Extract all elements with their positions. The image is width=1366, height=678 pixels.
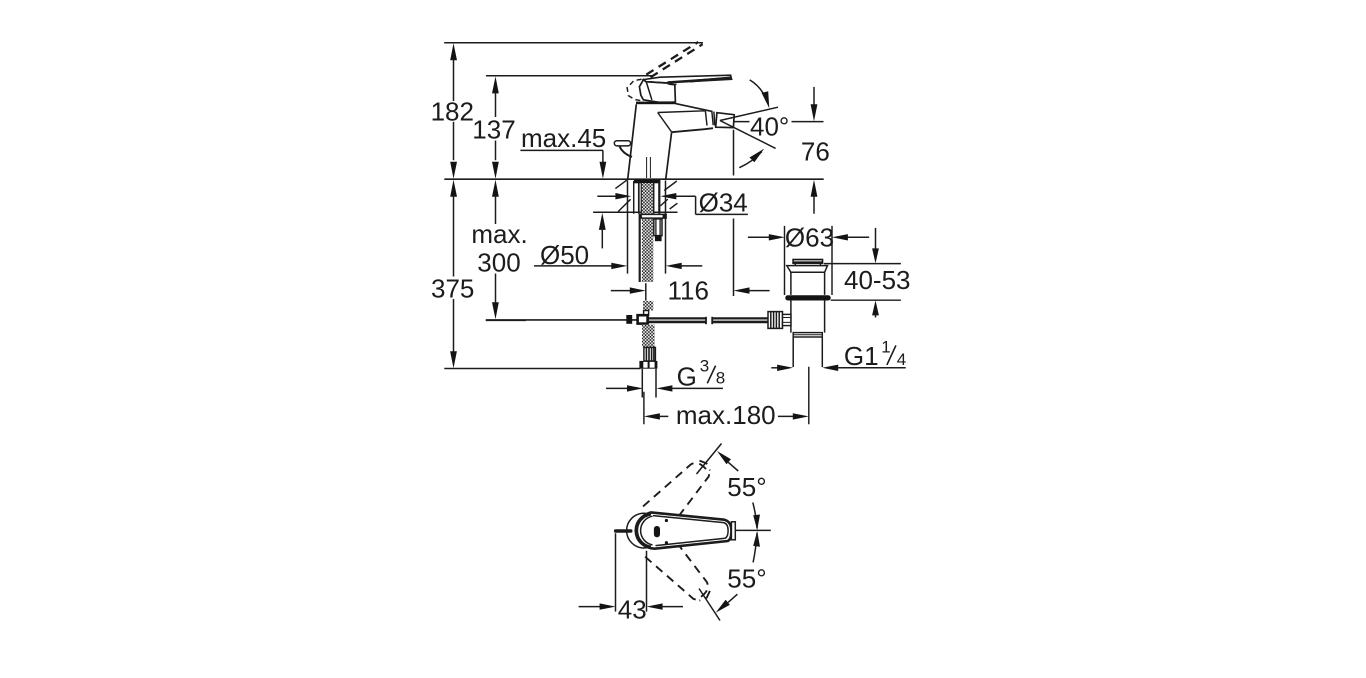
- 55 degree lower ray: [699, 589, 720, 621]
- dimension Ø63: [748, 222, 869, 295]
- hose resume braid: [643, 301, 653, 311]
- hose nut G3/8: [639, 361, 657, 369]
- spout facet lines: [658, 111, 707, 132]
- dimension 40-53: [824, 228, 911, 318]
- counter bottom line: [593, 211, 677, 213]
- svg-text:4: 4: [897, 350, 906, 369]
- svg-text:76: 76: [801, 137, 830, 167]
- svg-text:max.45: max.45: [521, 123, 606, 153]
- dashed lever rotated down: [643, 531, 719, 609]
- lever dots: [665, 519, 668, 522]
- drain collar: [793, 333, 822, 337]
- pop-up horizontal rod left segment: [486, 317, 706, 324]
- angle 40 degree rays: [720, 107, 778, 148]
- spout tip extension line: [733, 130, 735, 296]
- drain cap disc: [792, 259, 823, 264]
- lever left crescent: [636, 514, 651, 548]
- dimension Ø50: [534, 181, 702, 274]
- nipple foot: [655, 236, 662, 242]
- svg-text:137: 137: [472, 115, 515, 145]
- top view cartridge cap circle: [627, 513, 662, 548]
- knob hook curve: [620, 146, 633, 157]
- rod coupling blocks: [626, 315, 632, 324]
- drain body lower: [791, 301, 825, 333]
- 55 lower arc with arrows: [753, 531, 760, 547]
- hose nipple: [654, 219, 662, 236]
- shank top dark band: [634, 180, 661, 184]
- dashed lever rotated up: [643, 452, 719, 530]
- svg-text:max.180: max.180: [676, 400, 776, 430]
- dimension max.180: [644, 367, 809, 430]
- svg-text:116: 116: [668, 275, 709, 305]
- spout top edge: [676, 104, 713, 112]
- drain actuator knob: [768, 312, 783, 329]
- dimension 137 vertical line: [472, 76, 515, 178]
- blade small arc: [668, 84, 677, 85]
- hose left dark edge: [639, 214, 641, 282]
- svg-text:G: G: [677, 361, 697, 391]
- 40 degree upper arc with arrow: [750, 80, 768, 104]
- 375 bottom reference line: [444, 368, 640, 370]
- label max.45 with leader arrow: [520, 123, 606, 248]
- svg-text:55°: 55°: [727, 472, 766, 502]
- spout bottom edge: [672, 128, 713, 132]
- lever slot: [654, 526, 660, 537]
- svg-text:182: 182: [431, 97, 474, 127]
- pop-up rod top view: [616, 529, 631, 532]
- boss crease: [646, 82, 652, 100]
- svg-text:G1: G1: [844, 341, 879, 371]
- ribbed hose end fitting: [644, 347, 656, 361]
- shank right wall: [653, 183, 655, 214]
- drain body upper: [791, 272, 825, 295]
- dashed raised lever: [646, 42, 702, 77]
- svg-text:40-53: 40-53: [844, 265, 911, 295]
- mounting nut: [639, 214, 667, 219]
- top reference line (182 level): [444, 42, 703, 44]
- svg-text:3: 3: [700, 356, 709, 375]
- dashed boss alternate position: [627, 79, 641, 100]
- drain tailpipe: [793, 337, 822, 367]
- dimension 182 vertical line: [431, 43, 474, 179]
- lever blade: [644, 75, 732, 83]
- drain cap underside: [792, 262, 823, 264]
- svg-text:Ø34: Ø34: [699, 188, 748, 218]
- solid lever top view: [637, 512, 732, 548]
- lever inner outline: [653, 516, 728, 546]
- svg-text:Ø63: Ø63: [785, 222, 834, 252]
- svg-text:300: 300: [477, 248, 520, 278]
- G3/8 thread tube: [642, 369, 656, 398]
- aerator: [716, 113, 735, 128]
- blade inner line: [668, 78, 729, 82]
- svg-text:8: 8: [716, 368, 725, 387]
- 55 degree upper ray: [697, 444, 722, 475]
- dimension 43: [579, 533, 683, 624]
- svg-text:375: 375: [431, 273, 474, 303]
- handle boss: [639, 80, 675, 103]
- hose break centerline: [645, 283, 647, 300]
- svg-text:40°: 40°: [750, 111, 789, 141]
- drain flange: [787, 266, 828, 273]
- hose below tee braid: [642, 325, 655, 348]
- dimension G3/8: [606, 356, 725, 391]
- dimension 375 vertical line: [431, 180, 474, 368]
- shank left wall: [633, 181, 635, 214]
- dimension G1 1/4: [771, 338, 906, 372]
- hatch left: [615, 180, 630, 212]
- max.300 bottom reference line: [486, 319, 526, 321]
- dimension 76: [801, 87, 830, 214]
- rod holder piece: [644, 311, 649, 316]
- hatch right: [660, 181, 677, 209]
- dimension 116: [611, 275, 770, 305]
- cartridge seam dark band: [636, 102, 676, 105]
- blade dark underside: [690, 78, 731, 82]
- threaded hose braid: [642, 183, 653, 282]
- deck line: [444, 178, 823, 180]
- lever tip cap: [731, 522, 735, 540]
- svg-text:1: 1: [881, 338, 890, 357]
- svg-text:max.: max.: [471, 219, 527, 249]
- dimension max.300 vertical line: [471, 180, 527, 319]
- knob stem: [783, 314, 791, 325]
- drain neck: [795, 264, 820, 266]
- 55 upper arc with arrows: [717, 451, 731, 464]
- spout aerator joint lines: [712, 112, 715, 126]
- drain gasket: [785, 295, 830, 300]
- spout axis line: [734, 121, 824, 123]
- pull rod lines inside body: [647, 157, 651, 178]
- pop-up rod knob: [614, 141, 630, 146]
- svg-text:55°: 55°: [727, 564, 766, 594]
- 40 degree lower arc with arrow: [739, 152, 762, 168]
- dimension Ø34: [597, 188, 748, 218]
- faucet body left and right edges: [628, 104, 672, 178]
- lever inner arc: [641, 516, 653, 545]
- handle axis line: [735, 529, 771, 531]
- pop-up horizontal rod right segment: [712, 317, 770, 324]
- svg-text:43: 43: [618, 594, 647, 624]
- spout reference line (137 level): [486, 75, 653, 77]
